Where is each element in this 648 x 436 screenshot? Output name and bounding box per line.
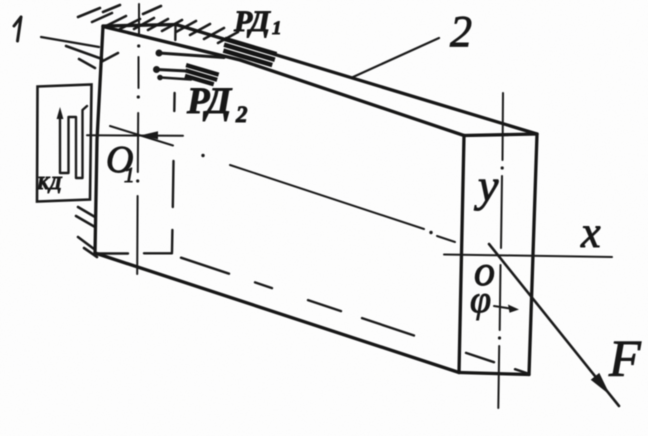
svg-text:x: x	[580, 208, 601, 257]
svg-text:2: 2	[450, 7, 472, 56]
svg-text:F: F	[608, 331, 642, 388]
svg-text:КД: КД	[36, 173, 62, 193]
svg-text:y: y	[474, 160, 499, 211]
svg-text:1: 1	[272, 18, 282, 39]
svg-text:2: 2	[235, 102, 248, 127]
svg-text:РД: РД	[186, 81, 233, 122]
svg-text:φ: φ	[470, 279, 491, 321]
svg-text:1: 1	[124, 163, 135, 187]
svg-text:РД: РД	[233, 5, 271, 38]
